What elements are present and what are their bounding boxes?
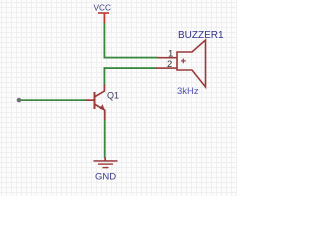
svg-text:GND: GND — [95, 172, 116, 183]
wire collector vertical — [104, 67, 106, 86]
ground GND — [94, 158, 118, 169]
pin 1 of BUZZER1 — [158, 49, 177, 60]
pin 2 of BUZZER1 — [156, 59, 177, 70]
base bar — [94, 92, 96, 109]
svg-text:Q1: Q1 — [107, 91, 119, 101]
collector diagonal — [95, 91, 105, 97]
svg-text:BUZZER1: BUZZER1 — [178, 30, 224, 41]
emitter diagonal — [95, 104, 105, 110]
wire VCC vertical — [104, 23, 106, 58]
collector pin vertical — [104, 85, 106, 92]
base pin — [85, 99, 94, 101]
wire node to buzzer pin 1 — [104, 57, 159, 59]
emitter pin vertical — [104, 110, 106, 121]
wire collector to buzzer pin 2 horizontal — [104, 67, 157, 69]
node input terminal dot — [17, 98, 22, 103]
buzzer BUZZER1 — [177, 40, 206, 87]
power symbol VCC — [94, 3, 112, 25]
wire emitter to ground — [104, 120, 106, 158]
emitter arrowhead — [100, 104, 105, 110]
svg-text:2: 2 — [167, 59, 172, 70]
transistor Q1 — [85, 85, 106, 121]
svg-text:VCC: VCC — [94, 3, 112, 13]
svg-text:3kHz: 3kHz — [177, 86, 199, 97]
wire base input — [19, 99, 85, 101]
